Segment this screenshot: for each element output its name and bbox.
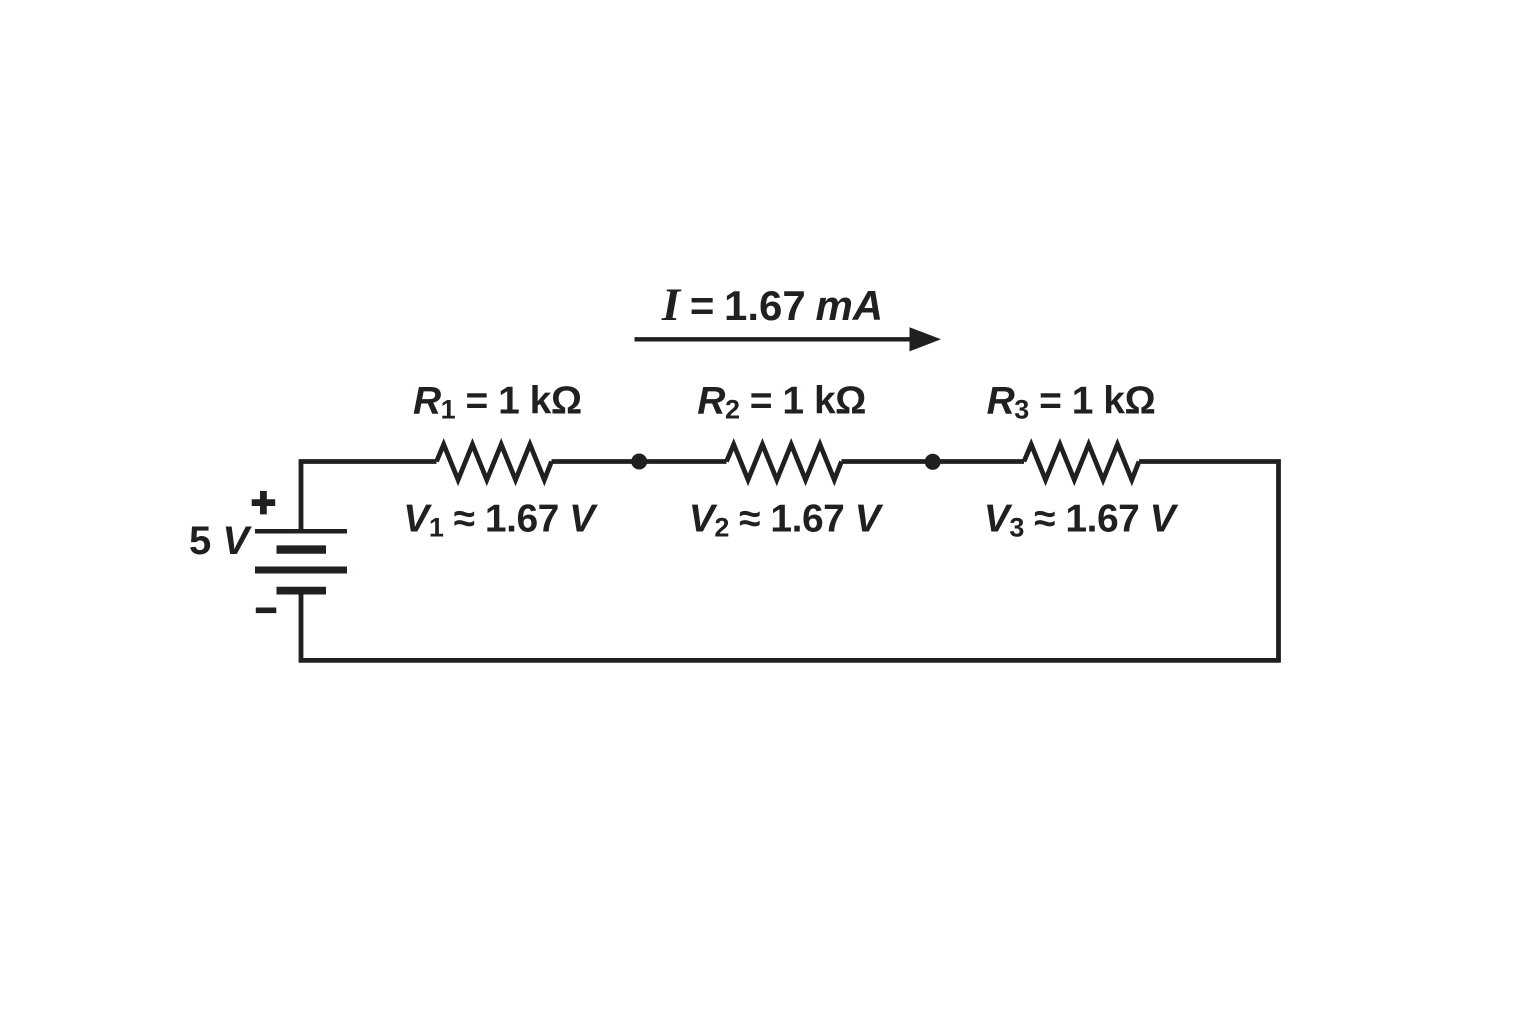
wire: segment from R2 to R3 [842,459,1025,464]
resistor R2 zigzag body [727,444,842,480]
current arrow [635,337,916,341]
battery - polarity mark [256,607,276,613]
svg-text:V2 ≈ 1.67 V: V2 ≈ 1.67 V [689,498,884,543]
wire: R3 to top-right corner, right side, bottom return and battery - terminal lead [301,462,1279,661]
resistor R3 zigzag body [1024,444,1139,480]
wire: segment from R1 to R2 [552,459,727,464]
svg-text:R1 = 1 kΩ: R1 = 1 kΩ [413,379,582,424]
svg-text:V1 ≈ 1.67 V: V1 ≈ 1.67 V [403,498,598,543]
wire: battery + terminal lead up and top-left segment to R1 [301,462,437,532]
battery plate 3: long plate [255,567,347,574]
svg-text:I = 1.67 mA: I = 1.67 mA [661,279,883,331]
battery V1 (5 V source) plate 1: long thin positive plate [255,529,347,534]
battery + polarity mark [252,491,276,515]
battery plate 2: short thick plate [277,545,327,553]
svg-text:V3 ≈ 1.67 V: V3 ≈ 1.67 V [984,498,1179,543]
svg-text:R2 = 1 kΩ: R2 = 1 kΩ [697,379,866,424]
svg-text:R3 = 1 kΩ: R3 = 1 kΩ [987,379,1156,424]
svg-text:5 V: 5 V [189,519,252,563]
resistor R1 zigzag body [437,444,552,480]
node B: junction dot between R2 and R3 [925,454,941,470]
battery plate 4: short thick negative plate [277,587,327,595]
node A: junction dot between R1 and R2 [631,454,647,470]
